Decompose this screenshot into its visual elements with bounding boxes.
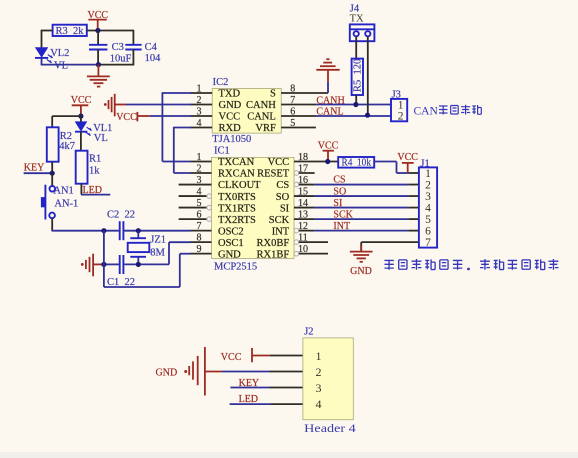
- wire GND to IC2.2: [126, 104, 191, 106]
- svg-text:RXD: RXD: [219, 123, 242, 134]
- ground (earth, J1): [350, 245, 373, 277]
- IC2 pin 8 wire (S to earth): [281, 92, 328, 94]
- net label LED (stub): [81, 185, 110, 196]
- svg-text:OSC2: OSC2: [218, 226, 244, 237]
- svg-text:VCC: VCC: [268, 157, 290, 168]
- wire AN1 to GND rail: [51, 218, 53, 231]
- IC1 pin 15 stub: [294, 195, 315, 197]
- svg-text:TXD: TXD: [219, 89, 241, 100]
- node VCC junction: [78, 114, 83, 119]
- svg-text:3: 3: [425, 191, 431, 203]
- IC1 pin 4 stub + bubble: [179, 195, 207, 197]
- J1 pin1 stub: [408, 172, 419, 174]
- svg-text:SCK: SCK: [269, 215, 290, 226]
- IC2 pin 5 VRF stub: [281, 127, 316, 129]
- op IC2 TJA1050 body: [212, 77, 281, 145]
- wire VCC to IC2.3: [150, 115, 191, 117]
- IC1 pin names: [218, 157, 290, 260]
- power VCC (J2 pin1): [221, 348, 270, 363]
- IC1 pin 13 stub: [294, 218, 315, 220]
- wire TXD bus (IC2.1 to IC1.1): [162, 92, 191, 94]
- svg-text:4: 4: [425, 203, 431, 215]
- wire C3 top stem: [97, 31, 99, 45]
- svg-text:TX0RTS: TX0RTS: [218, 192, 256, 203]
- wire J2 pin1: [270, 355, 303, 357]
- svg-text:INT: INT: [333, 221, 350, 232]
- svg-text:CANH: CANH: [246, 100, 276, 111]
- svg-text:3: 3: [316, 381, 322, 395]
- wire R2 to KEY node: [51, 162, 53, 173]
- wire top-left from R3 to VL2: [41, 30, 53, 32]
- IC1 pin 10 stub + bubble: [294, 251, 299, 256]
- svg-text:6: 6: [425, 226, 431, 238]
- wire R1 to LED label: [80, 184, 82, 195]
- wire INT: [315, 230, 409, 232]
- wire VL2 cathode to bottom rail: [41, 58, 43, 65]
- junction bottom rail: [96, 62, 101, 67]
- svg-text:R5 120: R5 120: [352, 59, 363, 92]
- connector J1: [419, 158, 437, 249]
- net label KEY (J2): [230, 378, 269, 389]
- IC1 pin 8 stub: [191, 241, 212, 243]
- svg-text:JZ1: JZ1: [150, 235, 166, 246]
- svg-text:4: 4: [316, 397, 322, 411]
- wire bottom rail GND node to C4: [98, 64, 134, 66]
- capacitor C3 10uF: [89, 42, 132, 65]
- svg-text:R3 2k: R3 2k: [56, 26, 85, 37]
- wire SCK: [315, 218, 409, 220]
- svg-text:VL1: VL1: [93, 123, 112, 134]
- svg-text:1: 1: [316, 349, 322, 363]
- IC2 pin 7 CANH wire: [281, 104, 316, 106]
- svg-text:GND: GND: [219, 100, 242, 111]
- svg-text:2: 2: [398, 111, 404, 123]
- wire GND riser: [103, 231, 105, 287]
- wire VL2 anode stem: [41, 30, 43, 48]
- IC2 pin 6 CANL wire: [281, 115, 316, 117]
- svg-text:VRF: VRF: [255, 123, 276, 134]
- resistor R2 4k7: [47, 127, 75, 161]
- node KEY junction: [50, 171, 55, 176]
- wire C3 bottom stem: [97, 50, 99, 65]
- svg-text:VCC: VCC: [71, 95, 92, 106]
- junction GND riser x C1 row: [101, 262, 106, 267]
- wire J2 pin4: [271, 403, 303, 405]
- svg-text:GND: GND: [218, 249, 241, 260]
- svg-text:TJA1050: TJA1050: [212, 134, 251, 145]
- junction crystal bottom: [136, 262, 141, 267]
- IC2 pin 4 stub: [191, 127, 213, 129]
- resistor R4 10k: [338, 157, 374, 168]
- svg-text:1: 1: [425, 168, 431, 180]
- wire GND to C1: [104, 263, 119, 265]
- resistor R5 120: [352, 59, 364, 95]
- svg-text:7: 7: [425, 237, 431, 249]
- wire J2 pin2: [222, 371, 270, 373]
- wire VL1 anode stem: [80, 116, 82, 122]
- svg-text:VCC: VCC: [221, 352, 242, 363]
- IC1 pin 11 stub + bubble: [294, 240, 299, 245]
- IC1 pin 7 stub: [191, 230, 212, 232]
- wire R5 to CANH: [355, 95, 357, 105]
- svg-text:VCC: VCC: [397, 152, 418, 163]
- svg-text:C2 22: C2 22: [107, 210, 135, 221]
- IC1 pin 3 stub: [179, 184, 212, 186]
- wire C4 bottom stem: [132, 50, 134, 66]
- svg-text:MCP2515: MCP2515: [214, 262, 257, 273]
- IC2 pin 1 stub: [191, 92, 213, 94]
- IC1 pin 18 wire to R4: [294, 161, 338, 163]
- power VCC (pin18): [318, 140, 339, 161]
- svg-text:1k: 1k: [89, 165, 100, 176]
- junction pin18 VCC: [325, 159, 330, 164]
- junction GND riser x pin7: [101, 228, 106, 233]
- svg-text:4k7: 4k7: [59, 141, 75, 152]
- svg-text:GND: GND: [350, 266, 372, 277]
- capacitor C4 104: [125, 42, 161, 64]
- wire VCC node to R2: [52, 115, 81, 117]
- svg-text:GND: GND: [156, 368, 178, 379]
- pushbutton AN1: [41, 185, 78, 220]
- connector J4 TX: [350, 3, 375, 41]
- wire J4.1 to R5: [355, 36, 357, 58]
- svg-text:R1: R1: [89, 154, 101, 165]
- wire SI: [315, 207, 409, 209]
- wire SO: [315, 195, 409, 197]
- svg-text:OSC1: OSC1: [218, 238, 244, 249]
- IC1 pin 12 bubble: [294, 228, 299, 233]
- svg-text:TX1RTS: TX1RTS: [218, 203, 256, 214]
- svg-text:10uF: 10uF: [110, 54, 132, 65]
- svg-text:AN1: AN1: [53, 186, 73, 197]
- svg-text:KEY: KEY: [24, 163, 45, 174]
- svg-text:C4: C4: [145, 42, 158, 53]
- junction CANH x R5: [353, 102, 358, 107]
- IC1 pin 16 bubble: [294, 182, 299, 187]
- svg-text:SO: SO: [333, 186, 346, 197]
- wire RXD bus (IC2.4 to IC1.2): [174, 127, 191, 129]
- IC2 pin 2 stub: [191, 104, 213, 106]
- svg-text:1: 1: [398, 99, 404, 111]
- ground (earth, top-left): [87, 65, 110, 87]
- wire GND pin9 return: [104, 286, 180, 288]
- svg-text:CAN: CAN: [414, 105, 439, 117]
- svg-text:104: 104: [145, 53, 162, 64]
- svg-text:CANH: CANH: [316, 95, 344, 106]
- wire C1 to crystal bottom: [124, 263, 169, 265]
- svg-text:VCC: VCC: [318, 140, 339, 151]
- IC1 pin 14 stub: [294, 207, 315, 209]
- ground (earth inverted, S pin): [316, 59, 339, 82]
- svg-text:VL2: VL2: [50, 48, 69, 59]
- junction CANL x J4.2: [365, 113, 370, 118]
- label CAN interface (CJK): [414, 105, 482, 118]
- wire OSC1 riser: [168, 242, 170, 264]
- wire C2 to OSC2 pin: [124, 230, 190, 232]
- svg-text:VCC: VCC: [219, 112, 241, 123]
- wire J2 pin3: [270, 387, 303, 389]
- capacitor C1 22: [107, 255, 135, 288]
- IC2 pin 3 stub: [191, 115, 213, 117]
- svg-text:TX2RTS: TX2RTS: [218, 215, 256, 226]
- IC1 pin numbers: [197, 152, 309, 255]
- svg-text:IC1: IC1: [214, 145, 230, 156]
- svg-text:RESET: RESET: [257, 169, 290, 180]
- LED VL2: [35, 48, 69, 72]
- ground (sideways, crystal): [81, 254, 104, 277]
- connector J2 Header 4: [303, 327, 356, 435]
- wire C4 branch down: [132, 30, 134, 45]
- crystal JZ1 8M: [128, 231, 166, 265]
- net label KEY (left): [24, 163, 53, 174]
- svg-text:CANL: CANL: [247, 112, 276, 123]
- wire bottom rail VL2 to GND node: [41, 64, 99, 66]
- power VCC (bar, IC2 pin3): [116, 112, 150, 123]
- svg-text:CS: CS: [276, 180, 289, 191]
- wire R4 to J1 pin1: [374, 161, 396, 163]
- svg-text:Header 4: Header 4: [304, 421, 356, 435]
- svg-text:IC2: IC2: [213, 77, 229, 88]
- wire OSC2 net (pin7 row) left part: [52, 230, 119, 232]
- IC1 pin 17 stub + bubble: [294, 171, 299, 176]
- svg-text:CS: CS: [333, 175, 345, 186]
- svg-text:2: 2: [316, 365, 322, 379]
- wire R3 to node A: [87, 30, 134, 32]
- svg-text:CLKOUT: CLKOUT: [218, 180, 261, 191]
- svg-text:SO: SO: [276, 192, 290, 203]
- power VCC (top-left net): [88, 10, 109, 30]
- junction crystal top: [136, 228, 141, 233]
- op IC1 MCP2515 body: [212, 145, 295, 272]
- svg-text:RX1BF: RX1BF: [257, 249, 290, 260]
- svg-text:VL: VL: [54, 60, 68, 71]
- wire VL1 to R1: [80, 132, 82, 151]
- IC2 pin names: [219, 89, 277, 135]
- label module port (CJK): [384, 259, 558, 270]
- svg-text:RX0BF: RX0BF: [257, 238, 290, 249]
- svg-text:TXCAN: TXCAN: [218, 157, 255, 168]
- power VCC (left net): [71, 95, 92, 116]
- node A junction: [95, 28, 100, 33]
- svg-text:8M: 8M: [150, 248, 165, 259]
- power VCC (J1 pin1): [397, 152, 418, 173]
- IC1 left stubs pins 1-2: [191, 161, 212, 163]
- LED VL1: [75, 122, 112, 144]
- svg-text:TX: TX: [350, 13, 364, 24]
- ground (sideways big, J2 pin2): [156, 347, 223, 396]
- svg-text:J2: J2: [304, 327, 313, 338]
- wire CS: [315, 184, 409, 186]
- wire J4.2 down to CANL: [367, 36, 369, 115]
- resistor R1 1k: [76, 151, 102, 184]
- svg-text:VL: VL: [94, 133, 108, 144]
- svg-text:RXCAN: RXCAN: [218, 169, 255, 180]
- svg-text:2: 2: [425, 180, 431, 192]
- capacitor C2 22: [107, 210, 135, 241]
- connector J3: [391, 89, 407, 122]
- svg-text:S: S: [270, 89, 276, 100]
- svg-text:AN-1: AN-1: [54, 198, 78, 209]
- ground (sideways, IC2 pin2): [104, 94, 126, 117]
- wire J1 pin7 to GND: [361, 241, 419, 243]
- svg-text:SI: SI: [280, 203, 290, 214]
- IC1 pin 6 stub + bubble: [179, 218, 207, 220]
- resistor R3 2k: [53, 25, 87, 38]
- svg-text:5: 5: [425, 214, 431, 226]
- svg-text:CANL: CANL: [316, 107, 343, 118]
- svg-text:SI: SI: [333, 198, 342, 209]
- IC1 pin 5 stub + bubble: [179, 207, 207, 209]
- IC2 pin numbers: [197, 83, 296, 128]
- svg-text:R4 10k: R4 10k: [342, 157, 372, 168]
- svg-text:INT: INT: [272, 226, 290, 237]
- svg-text:VCC: VCC: [116, 112, 137, 123]
- wire KEY node to AN1: [51, 173, 53, 186]
- svg-text:SCK: SCK: [333, 209, 353, 220]
- svg-text:C3: C3: [112, 42, 124, 53]
- IC1 pin 9 stub: [191, 253, 212, 255]
- net label LED (J2): [230, 394, 271, 405]
